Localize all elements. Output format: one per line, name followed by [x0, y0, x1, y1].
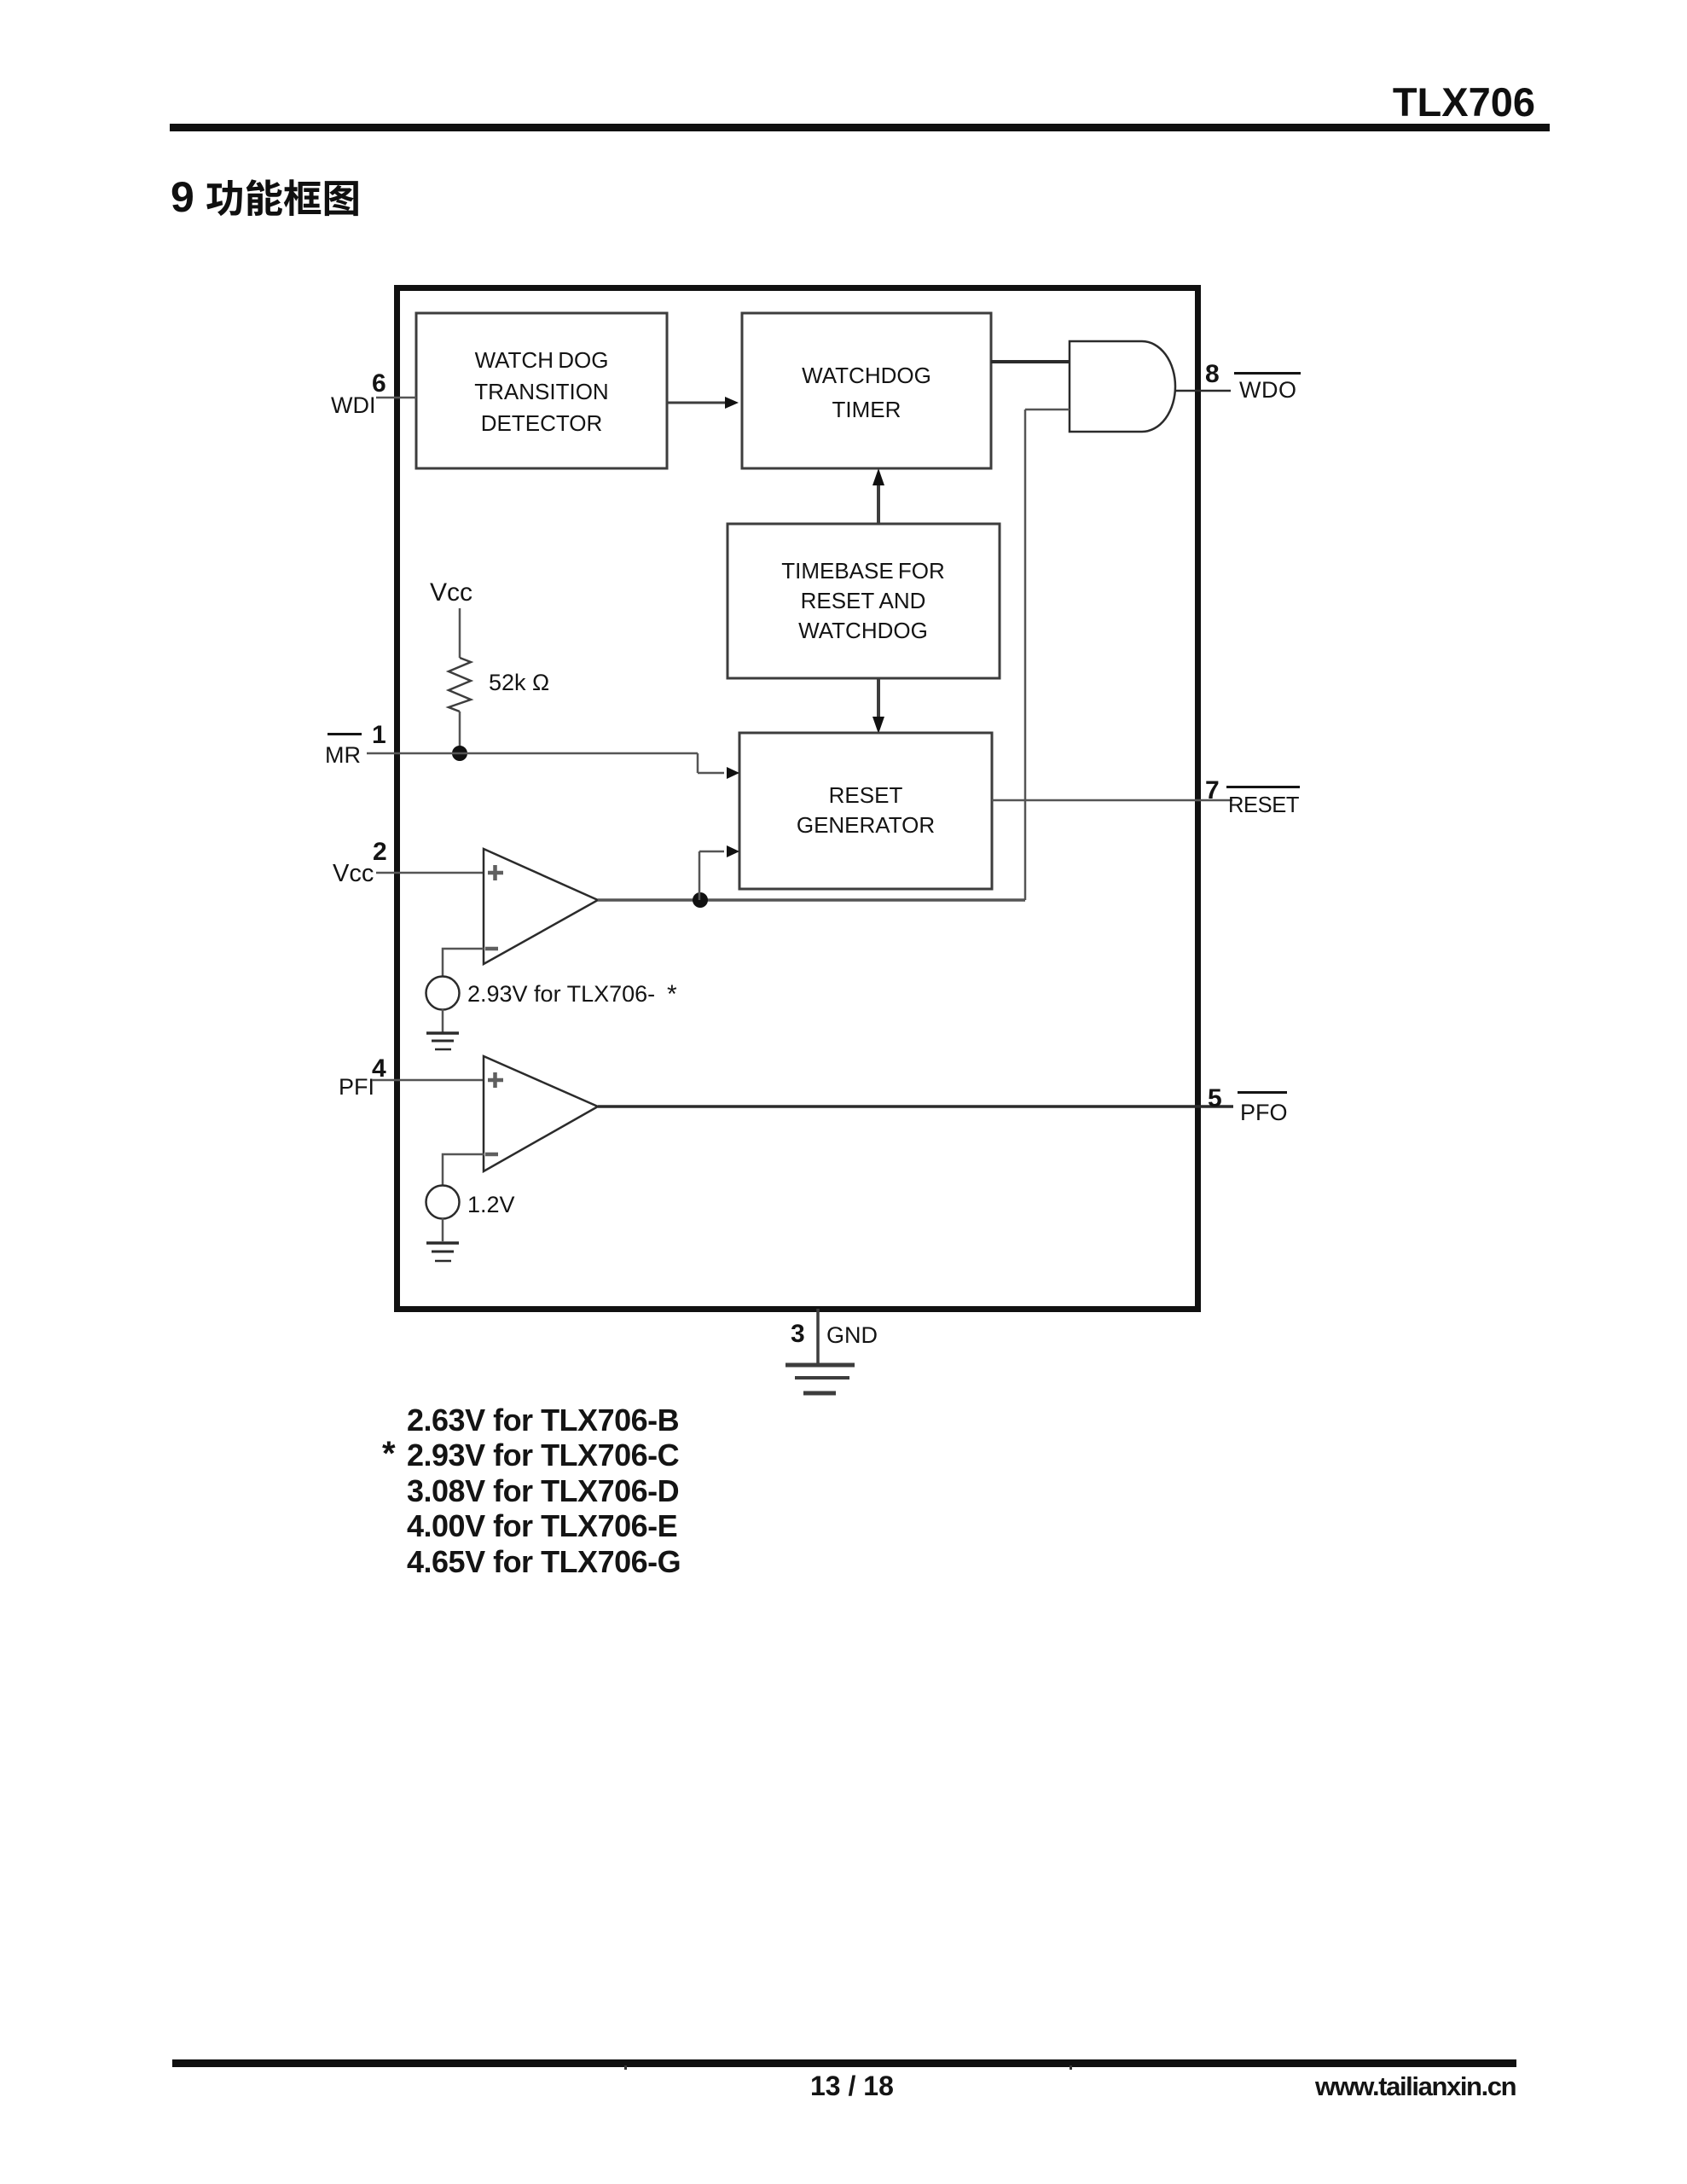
heading CJK char 能: [246, 179, 282, 216]
wire: node into reset generator with arrow: [699, 845, 739, 857]
wire: V2 to ground: [442, 1218, 444, 1241]
wire: timebase down to reset generator with arrow: [872, 678, 884, 734]
svg-text:4.00V for TLX706-E: 4.00V for TLX706-E: [407, 1508, 677, 1543]
svg-text:7: 7: [1205, 776, 1220, 804]
svg-text:www.tailianxin.cn: www.tailianxin.cn: [1314, 2071, 1516, 2101]
svg-text:GND: GND: [826, 1322, 878, 1348]
comparator B triangle: [484, 1056, 598, 1171]
comparator A triangle: [484, 849, 598, 964]
ground symbol GND1: [426, 1033, 459, 1049]
wire: MR run jog down: [697, 753, 699, 773]
block U2: WATCHDOG TIMER box: [742, 313, 991, 468]
svg-text:2.63V for TLX706-B: 2.63V for TLX706-B: [407, 1403, 679, 1438]
svg-text:2: 2: [373, 838, 387, 866]
svg-text:3: 3: [791, 1320, 805, 1348]
wire: V1 to ground: [442, 1009, 444, 1032]
wire: AND gate output to pin 8: [1175, 390, 1231, 392]
svg-text:RESET AND: RESET AND: [801, 588, 926, 613]
wire: timebase up to watchdog timer with arrow: [872, 468, 884, 524]
svg-text:WATCHDOG: WATCHDOG: [802, 363, 931, 388]
svg-text:WATCH DOG: WATCH DOG: [475, 347, 609, 373]
svg-text:MR: MR: [325, 742, 361, 768]
wire: detector to timer with arrow: [667, 397, 739, 409]
wire: Vcc to resistor R1: [459, 608, 461, 658]
footer rule tick left: [624, 2065, 627, 2070]
footer rule tick right: [1070, 2065, 1072, 2070]
wire: comparator B minus input: [443, 1154, 484, 1186]
wire: vertical riser from comparator output node to AND gate input: [1024, 409, 1027, 900]
heading CJK char 功: [206, 180, 242, 216]
ground symbol GND3: [786, 1365, 855, 1393]
heading CJK char 图: [325, 181, 358, 216]
svg-text:2.93V for TLX706-C: 2.93V for TLX706-C: [407, 1438, 680, 1472]
comparator A minus sign: [485, 947, 498, 951]
comparator B minus sign: [485, 1153, 498, 1157]
svg-text:PFO: PFO: [1240, 1100, 1288, 1125]
wire: AND gate bottom input from reset line: [1025, 409, 1070, 411]
wire: WDI pin into detector: [376, 397, 416, 399]
header rule: [170, 124, 1550, 131]
node: MR junction dot: [452, 746, 467, 761]
footer rule: [172, 2059, 1516, 2067]
svg-text:Vcc: Vcc: [430, 578, 472, 607]
wire: timer output to AND gate top input: [991, 360, 1070, 363]
svg-text:RESET: RESET: [829, 782, 903, 808]
svg-text:9: 9: [171, 173, 194, 221]
wire: GND stub below IC: [816, 1309, 820, 1364]
svg-text:RESET: RESET: [1228, 793, 1299, 817]
svg-text:8: 8: [1205, 360, 1220, 388]
wire: comparator A output to node: [598, 898, 1025, 902]
svg-text:5: 5: [1208, 1084, 1222, 1112]
svg-text:Vcc: Vcc: [333, 860, 374, 887]
wire: comparator A minus input: [443, 949, 484, 976]
comparator B plus sign: [488, 1072, 503, 1088]
svg-text:PFI: PFI: [339, 1074, 374, 1100]
wire: node up toward reset generator: [699, 851, 701, 900]
comparator A plus sign: [488, 865, 503, 880]
svg-text:TIMER: TIMER: [832, 397, 901, 422]
IC outer boundary box: [397, 288, 1198, 1310]
svg-text:WDI: WDI: [331, 392, 375, 418]
wire: comparator B output to pin 5 PFO: [598, 1105, 1233, 1108]
svg-text:TLX706: TLX706: [1393, 79, 1535, 125]
svg-text:TRANSITION: TRANSITION: [474, 379, 608, 404]
wire: MR into reset generator with arrow: [698, 767, 739, 779]
svg-text:WATCHDOG: WATCHDOG: [798, 618, 928, 643]
wire: PFI pin to comparator B plus input: [372, 1079, 484, 1082]
svg-text:13 / 18: 13 / 18: [810, 2071, 894, 2101]
svg-text:*: *: [667, 980, 677, 1008]
ground symbol GND2: [426, 1243, 459, 1261]
wire: resistor R1 to MR node: [459, 712, 461, 753]
svg-text:GENERATOR: GENERATOR: [797, 812, 935, 838]
svg-text:*: *: [382, 1435, 396, 1472]
svg-text:3.08V for TLX706-D: 3.08V for TLX706-D: [407, 1473, 679, 1508]
resistor R1 52k zigzag: [449, 658, 471, 712]
wire: MR pin horizontal run: [367, 752, 698, 755]
block U4: RESET GENERATOR box: [739, 733, 992, 889]
block U3: TIMEBASE FOR RESET AND WATCHDOG box: [728, 524, 1000, 678]
svg-text:4.65V for TLX706-G: 4.65V for TLX706-G: [407, 1544, 681, 1579]
pin 5 PFO label with overline: [1238, 1091, 1288, 1125]
voltage reference V2 circle: [426, 1186, 460, 1219]
pin 1 MR label with overline: [325, 733, 362, 768]
block U1: WATCH DOG TRANSITION DETECTOR box: [416, 313, 667, 468]
svg-text:DETECTOR: DETECTOR: [481, 410, 603, 436]
wire: Vcc pin to comparator A plus input: [376, 872, 484, 874]
svg-text:2.93V for TLX706-: 2.93V for TLX706-: [467, 981, 655, 1007]
svg-text:TIMEBASE FOR: TIMEBASE FOR: [781, 558, 945, 584]
svg-text:WDO: WDO: [1239, 377, 1296, 403]
pin 7 RESET label with overline: [1226, 786, 1300, 817]
svg-text:1: 1: [372, 721, 386, 749]
node: comparator A output junction dot: [693, 892, 708, 908]
pin 8 WDO label with overline: [1234, 372, 1301, 403]
svg-text:1.2V: 1.2V: [467, 1192, 515, 1217]
voltage reference V1 circle: [426, 977, 460, 1010]
wire: reset generator output to pin 7: [992, 799, 1232, 802]
heading CJK char 框: [284, 179, 321, 216]
svg-text:52k Ω: 52k Ω: [489, 670, 549, 695]
AND gate G1: [1070, 341, 1175, 432]
